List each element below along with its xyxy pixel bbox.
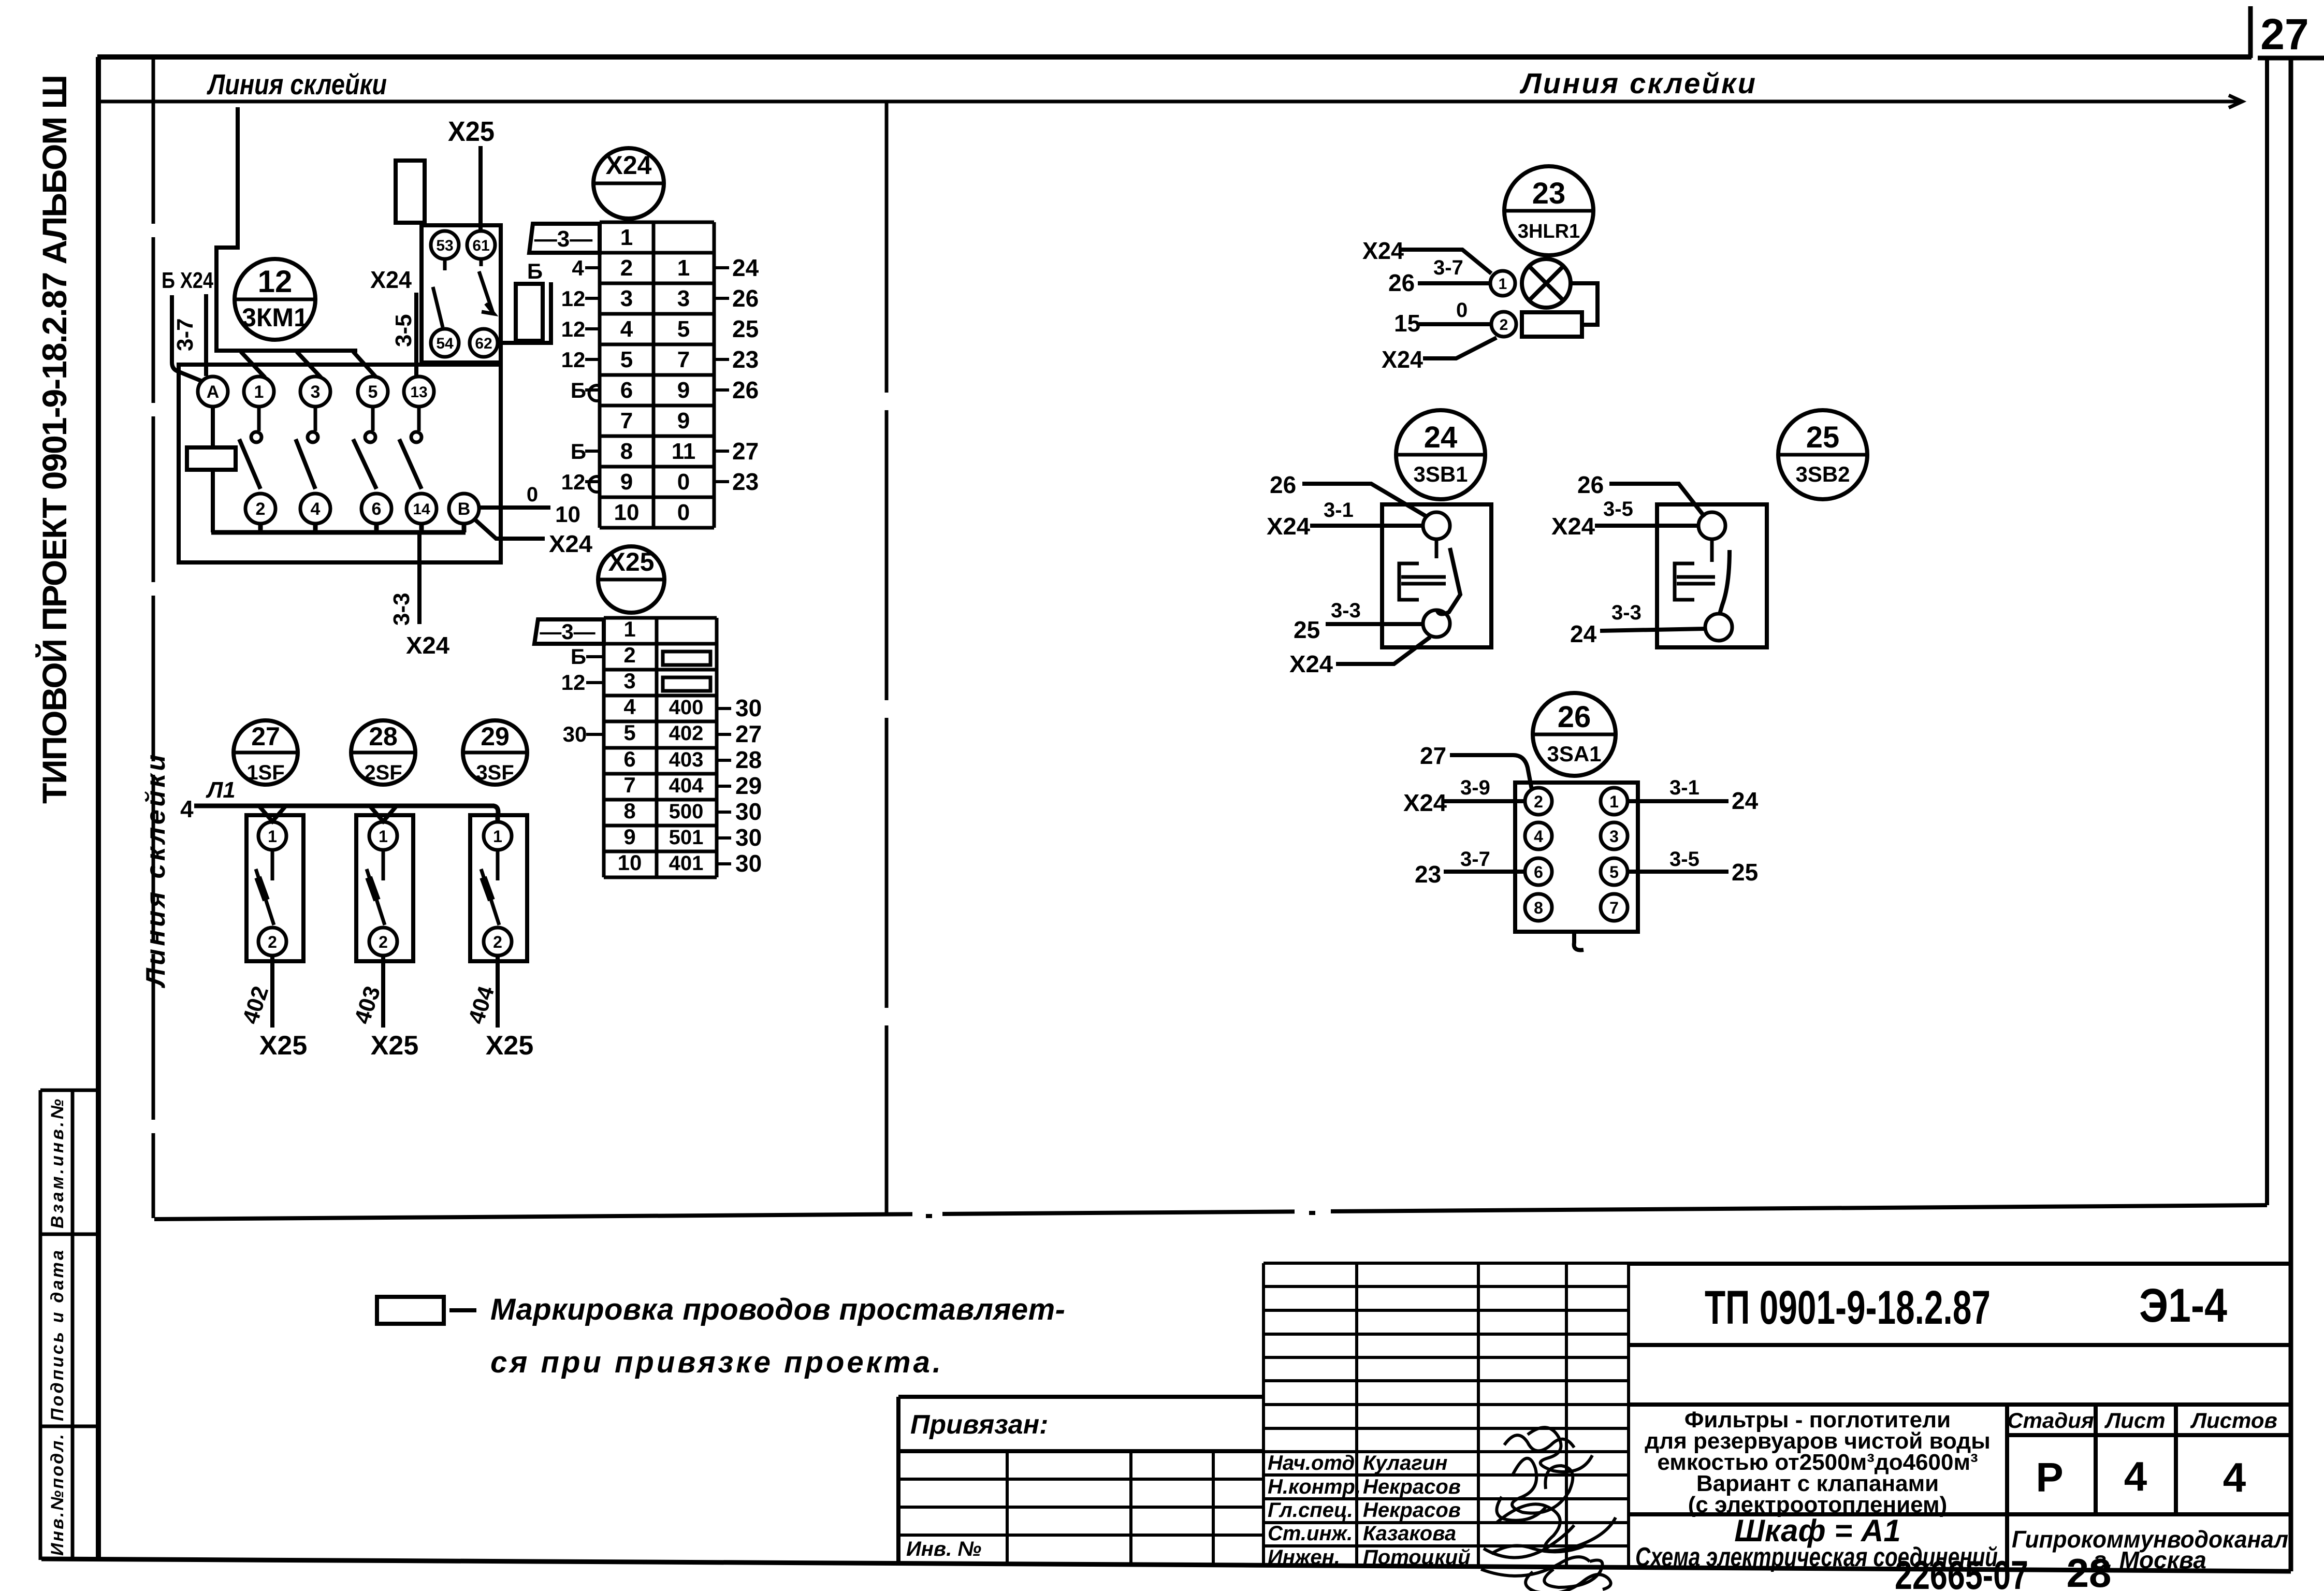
svg-text:29: 29: [735, 772, 762, 799]
aux contact 53-54 blade: [433, 259, 445, 327]
svg-text:23: 23: [1532, 177, 1566, 210]
switch pin 3: [1601, 822, 1628, 849]
svg-text:5: 5: [677, 316, 690, 342]
svg-text:ТП 0901-9-18.2.87: ТП 0901-9-18.2.87: [1705, 1281, 1991, 1334]
pin B: [449, 494, 479, 524]
svg-text:30: 30: [735, 695, 762, 721]
breaker 2SF box: [356, 815, 413, 961]
schematic bottom line: [154, 1205, 2267, 1219]
pole contact 720: [371, 407, 375, 431]
svg-text:Х25: Х25: [371, 1031, 419, 1061]
svg-text:12: 12: [561, 348, 586, 372]
svg-text:0: 0: [677, 469, 690, 495]
svg-text:3-7: 3-7: [1433, 256, 1463, 279]
pin 14: [406, 494, 437, 524]
pin 2: [245, 494, 275, 524]
wire mark rect 2: [516, 284, 543, 341]
breaker 3SF bottom wire: [496, 956, 500, 1028]
aux contact box: [422, 225, 501, 363]
svg-text:Б Х24: Б Х24: [162, 268, 213, 293]
svg-text:404: 404: [669, 774, 704, 797]
svg-text:Х24: Х24: [1362, 237, 1404, 264]
svg-text:7: 7: [623, 773, 635, 797]
svg-text:28: 28: [369, 722, 398, 751]
svg-text:3: 3: [1609, 827, 1619, 846]
svg-text:Стадия: Стадия: [2007, 1408, 2094, 1433]
lamp designator 23/3HLR1: [1504, 166, 1593, 255]
switch pin 1: [1601, 788, 1628, 815]
supply bus: [194, 806, 498, 822]
lamp resistor: [1522, 312, 1582, 337]
svg-text:Х25: Х25: [448, 116, 495, 147]
svg-text:7: 7: [620, 408, 633, 433]
svg-text:2: 2: [620, 255, 633, 281]
svg-text:27: 27: [1420, 742, 1446, 769]
attachment stamp table: [40, 1090, 98, 1560]
svg-text:13: 13: [410, 384, 427, 401]
svg-text:5: 5: [623, 720, 635, 745]
breaker 2SF designator: [351, 720, 415, 785]
pin 6: [361, 494, 391, 524]
wire mark rect near X25: [396, 161, 425, 223]
svg-text:3-5: 3-5: [391, 314, 416, 347]
pole contact 500: [257, 407, 261, 431]
svg-text:Б: Б: [527, 259, 543, 283]
svg-text:4: 4: [623, 695, 636, 719]
svg-text:Листов: Листов: [2190, 1408, 2277, 1433]
breaker 1SF box: [246, 815, 303, 961]
button 3SB1 top pin: [1423, 512, 1450, 539]
svg-text:3-1: 3-1: [1669, 776, 1700, 799]
breaker 1SF blade: [256, 850, 274, 925]
svg-text:—3—: —3—: [540, 619, 595, 644]
svg-text:3-3: 3-3: [389, 592, 414, 626]
svg-text:14: 14: [413, 501, 430, 518]
button designator 24/3SB1: [1396, 410, 1485, 499]
title block names grid: [1263, 1263, 1629, 1567]
svg-text:61: 61: [472, 237, 489, 254]
switch pin 8: [1525, 894, 1552, 921]
svg-text:Х24: Х24: [606, 151, 652, 180]
svg-text:Маркировка проводов проставл: Маркировка проводов проставляет-: [490, 1293, 1065, 1326]
svg-text:Х24: Х24: [1289, 650, 1333, 677]
svg-text:1: 1: [677, 255, 690, 281]
svg-text:4: 4: [620, 316, 633, 342]
svg-text:6: 6: [1534, 863, 1543, 881]
svg-text:2: 2: [256, 499, 266, 519]
svg-text:8: 8: [1534, 899, 1543, 917]
breaker 3SF pin 1: [484, 822, 512, 850]
svg-text:3-3: 3-3: [1611, 601, 1642, 624]
switch bottom hook: [1574, 932, 1584, 950]
aux contact 61-62 blade with arrow: [479, 259, 494, 314]
lamp pin 2: [1491, 312, 1516, 337]
svg-text:2: 2: [379, 933, 388, 951]
button 3SB1 mechanism: [1435, 539, 1439, 558]
svg-text:Р: Р: [2036, 1454, 2063, 1500]
svg-text:25: 25: [1732, 859, 1758, 886]
svg-text:4: 4: [2223, 1454, 2246, 1500]
svg-text:0: 0: [1456, 299, 1468, 322]
svg-text:3SB1: 3SB1: [1413, 462, 1468, 486]
svg-text:3-5: 3-5: [1669, 848, 1700, 871]
switch pin 4: [1525, 822, 1552, 849]
pole contact 609: [314, 407, 317, 431]
switch designator 26/3SA1: [1533, 693, 1616, 776]
svg-text:26: 26: [732, 377, 759, 403]
svg-text:Х24: Х24: [1267, 513, 1310, 540]
svg-text:2SF: 2SF: [364, 761, 402, 784]
X24 -3- box: [529, 224, 600, 253]
breaker 1SF designator: [234, 720, 298, 785]
svg-text:8: 8: [620, 439, 633, 464]
svg-text:9: 9: [623, 825, 635, 849]
svg-text:12: 12: [561, 470, 586, 494]
lamp pin 1: [1490, 271, 1515, 296]
svg-text:Потоцкий: Потоцкий: [1363, 1546, 1471, 1569]
breaker 3SF pin 2: [484, 928, 512, 956]
wire B right 0/10: [480, 505, 550, 510]
svg-text:3SB2: 3SB2: [1795, 462, 1850, 486]
svg-text:12: 12: [561, 670, 586, 695]
svg-text:Х25: Х25: [259, 1031, 308, 1061]
aux pin 61: [467, 231, 495, 259]
breaker 2SF bottom wire: [381, 956, 385, 1028]
svg-text:501: 501: [669, 826, 704, 849]
svg-text:Э1-4: Э1-4: [2139, 1279, 2227, 1332]
svg-text:24: 24: [732, 254, 759, 281]
svg-text:5: 5: [1609, 863, 1619, 881]
svg-text:3-1: 3-1: [1324, 499, 1354, 522]
svg-text:3-7: 3-7: [1460, 848, 1490, 871]
svg-text:28: 28: [2067, 1550, 2112, 1591]
svg-text:11: 11: [672, 439, 696, 464]
aux pin 54: [431, 329, 459, 357]
svg-text:9: 9: [677, 408, 690, 433]
switch pin 5: [1601, 858, 1628, 885]
breaker 1SF pin 1: [258, 822, 286, 850]
svg-text:4: 4: [311, 499, 321, 519]
svg-text:3-7: 3-7: [172, 318, 198, 351]
terminal block X24 designator: [593, 148, 664, 219]
svg-text:3-3: 3-3: [1331, 599, 1361, 622]
svg-text:26: 26: [1388, 269, 1415, 296]
svg-text:1SF: 1SF: [246, 761, 284, 784]
svg-text:Инжен.: Инжен.: [1268, 1546, 1340, 1569]
svg-text:8: 8: [623, 799, 635, 823]
pin 1: [244, 377, 274, 407]
wire X25 to pin 61: [478, 146, 483, 231]
svg-text:Нач.отд: Нач.отд: [1268, 1452, 1355, 1474]
pin 5: [358, 377, 388, 407]
svg-text:3: 3: [620, 286, 633, 311]
svg-text:Б: Б: [571, 439, 586, 464]
svg-text:1: 1: [620, 225, 633, 250]
switch pin 7: [1601, 894, 1628, 921]
switch pin 6: [1525, 858, 1552, 885]
svg-text:1: 1: [1609, 792, 1619, 811]
svg-text:26: 26: [1577, 471, 1604, 498]
switch pin 2: [1525, 788, 1552, 815]
svg-text:Х24: Х24: [370, 266, 412, 293]
svg-text:30: 30: [735, 824, 762, 851]
svg-text:Кулагин: Кулагин: [1363, 1452, 1447, 1474]
breaker 1SF bottom wire: [270, 956, 274, 1028]
button 3SB2 mechanism: [1710, 539, 1714, 562]
svg-text:30: 30: [735, 798, 762, 825]
wire 14 down 3-3 X24: [417, 532, 422, 624]
svg-text:—3—: —3—: [534, 226, 592, 252]
legend marking box: [377, 1297, 444, 1324]
svg-text:Лист: Лист: [2104, 1408, 2165, 1433]
svg-text:Б: Б: [571, 378, 586, 402]
svg-text:10: 10: [614, 500, 640, 525]
svg-text:1: 1: [268, 827, 277, 846]
button designator 25/3SB2: [1778, 410, 1867, 499]
svg-text:Некрасов: Некрасов: [1363, 1499, 1461, 1522]
svg-text:В: В: [458, 499, 471, 519]
svg-text:53: 53: [436, 237, 453, 254]
svg-text:3: 3: [623, 669, 635, 693]
svg-text:4: 4: [572, 256, 584, 280]
svg-text:10: 10: [555, 502, 580, 527]
svg-text:Некрасов: Некрасов: [1363, 1476, 1461, 1498]
pin 3: [300, 377, 330, 407]
svg-text:22665-07: 22665-07: [1895, 1552, 2028, 1591]
button 3SB1 box: [1382, 504, 1491, 647]
svg-text:Х25: Х25: [608, 547, 655, 576]
switch 3SA1 box: [1515, 783, 1638, 932]
wire 3-7 to pin A: [172, 295, 202, 381]
svg-text:Х24: Х24: [1382, 346, 1423, 373]
button 3SB2 box: [1657, 504, 1767, 647]
svg-text:62: 62: [475, 335, 492, 352]
svg-text:Линия склейки: Линия склейки: [207, 68, 387, 100]
svg-text:Х24: Х24: [549, 530, 592, 557]
svg-text:1: 1: [493, 827, 502, 846]
breaker 3SF designator: [463, 720, 527, 785]
svg-text:12: 12: [561, 286, 586, 311]
svg-text:Гл.спец.: Гл.спец.: [1268, 1499, 1353, 1522]
svg-text:27: 27: [732, 438, 759, 465]
svg-text:Л1: Л1: [206, 777, 236, 803]
svg-text:Ст.инж.: Ст.инж.: [1268, 1522, 1353, 1545]
svg-text:4: 4: [2124, 1453, 2147, 1499]
svg-text:3HLR1: 3HLR1: [1518, 221, 1580, 242]
svg-text:403: 403: [669, 748, 704, 771]
svg-text:23: 23: [732, 468, 759, 495]
svg-text:3-5: 3-5: [1603, 498, 1633, 520]
svg-text:29: 29: [481, 722, 510, 751]
svg-text:3SA1: 3SA1: [1547, 742, 1601, 766]
svg-text:3КМ1: 3КМ1: [242, 303, 308, 332]
svg-text:2: 2: [623, 643, 635, 667]
button 3SB2 top pin: [1698, 512, 1725, 539]
svg-text:Х24: Х24: [1551, 513, 1595, 540]
svg-text:Привязан:: Привязан:: [910, 1410, 1048, 1440]
svg-text:12: 12: [561, 317, 586, 341]
aux pin 53: [431, 231, 459, 259]
wire 62 to B bracket: [498, 282, 551, 343]
svg-text:Н.контр.: Н.контр.: [1268, 1476, 1361, 1498]
svg-text:Х24: Х24: [1403, 789, 1447, 816]
svg-text:4: 4: [180, 795, 194, 822]
svg-text:3SF: 3SF: [476, 761, 514, 784]
lamp symbol: [1522, 259, 1571, 308]
legend dash: [449, 1308, 476, 1312]
svg-text:Казакова: Казакова: [1363, 1522, 1456, 1545]
svg-text:10: 10: [618, 850, 642, 875]
svg-text:2: 2: [268, 933, 277, 951]
X25 table grid: [604, 618, 717, 877]
svg-text:26: 26: [1558, 700, 1591, 734]
svg-text:24: 24: [1570, 620, 1597, 647]
svg-text:А: А: [207, 382, 220, 402]
svg-text:54: 54: [436, 335, 454, 352]
pin 13: [404, 377, 434, 407]
svg-text:6: 6: [620, 378, 633, 403]
breaker 2SF pin 2: [369, 928, 397, 956]
svg-text:400: 400: [669, 696, 704, 719]
aux pin 62: [470, 329, 498, 357]
X25 marking boxes rows 2-3: [663, 652, 710, 665]
svg-text:26: 26: [732, 285, 759, 312]
svg-text:24: 24: [1732, 787, 1759, 814]
bus dips into breakers: [259, 806, 286, 821]
svg-text:401: 401: [669, 852, 704, 875]
svg-text:500: 500: [669, 800, 704, 823]
coil rect: [187, 447, 236, 470]
svg-text:Взам.инв.№: Взам.инв.№: [48, 1099, 67, 1228]
svg-text:1: 1: [1499, 276, 1507, 293]
inner right border: [2265, 60, 2269, 1205]
svg-text:1: 1: [254, 382, 264, 402]
svg-text:9: 9: [620, 469, 633, 495]
svg-text:27: 27: [251, 722, 280, 751]
wire X24/3-5 to pin 13: [414, 293, 418, 376]
svg-text:4: 4: [1534, 827, 1543, 846]
svg-text:12: 12: [258, 264, 293, 299]
svg-text:23: 23: [732, 346, 759, 373]
pole contact 809: [417, 407, 421, 431]
privyazan table: [898, 1397, 1263, 1562]
svg-text:3-9: 3-9: [1460, 776, 1490, 799]
breaker 3SF blade: [481, 850, 499, 925]
svg-text:Б: Б: [571, 644, 586, 669]
pin 4: [300, 494, 330, 524]
svg-text:2: 2: [1534, 792, 1543, 811]
svg-text:0: 0: [677, 500, 690, 525]
svg-text:28: 28: [735, 746, 762, 773]
X24 table grid: [600, 222, 714, 528]
svg-text:6: 6: [372, 499, 382, 519]
svg-text:402: 402: [669, 722, 704, 745]
center divider line: [885, 103, 889, 1216]
svg-text:Х24: Х24: [406, 632, 449, 659]
breaker 2SF blade: [367, 850, 385, 925]
contactor main box: [179, 365, 501, 562]
contactor K 3KM1 outline wires: [216, 107, 357, 351]
svg-text:30: 30: [735, 850, 762, 877]
button 3SB2 bottom pin: [1705, 614, 1732, 641]
X25 -3- box: [534, 619, 604, 644]
svg-text:0: 0: [527, 483, 538, 506]
svg-text:2: 2: [1500, 316, 1508, 334]
breaker 1SF pin 2: [258, 928, 286, 956]
coil connections: [211, 407, 215, 532]
svg-text:15: 15: [1394, 310, 1420, 337]
svg-text:7: 7: [1609, 899, 1619, 917]
svg-text:Х25: Х25: [486, 1031, 534, 1061]
svg-text:6: 6: [623, 747, 635, 771]
button 3SB1 bottom pin: [1423, 610, 1450, 637]
svg-text:3: 3: [311, 382, 321, 402]
svg-text:Инв. №: Инв. №: [906, 1538, 981, 1560]
svg-text:2: 2: [493, 933, 502, 951]
glue band second line with arrow: [98, 100, 2242, 104]
svg-text:5: 5: [620, 347, 633, 372]
title block right section: [1629, 1264, 2291, 1569]
breaker 2SF pin 1: [369, 822, 397, 850]
svg-text:1: 1: [623, 617, 635, 641]
terminal block X25 designator: [598, 546, 664, 613]
wire B to X24: [475, 519, 545, 539]
svg-text:25: 25: [1806, 421, 1840, 454]
bottom bus: [211, 524, 466, 532]
wire X24 to pin A: [204, 294, 208, 376]
lamp right link: [1571, 283, 1597, 325]
breaker 3SF box: [470, 815, 527, 961]
svg-text:9: 9: [677, 378, 690, 403]
svg-text:7: 7: [677, 347, 690, 372]
contactor designator 12/3KM1: [235, 259, 315, 340]
svg-text:25: 25: [1294, 616, 1320, 643]
svg-text:1: 1: [379, 827, 388, 846]
svg-text:ТИПОВОЙ ПРОЕКТ 0901-9-18.2.87: ТИПОВОЙ ПРОЕКТ 0901-9-18.2.87 АЛЬБОМ Ш: [35, 75, 74, 804]
svg-text:27: 27: [735, 720, 762, 747]
signatures: [1481, 1427, 1616, 1591]
svg-text:24: 24: [1424, 421, 1458, 454]
svg-text:5: 5: [368, 382, 378, 402]
svg-text:25: 25: [732, 315, 759, 342]
svg-text:23: 23: [1415, 861, 1441, 888]
svg-text:30: 30: [563, 722, 587, 746]
svg-text:27: 27: [2260, 10, 2308, 59]
svg-text:26: 26: [1270, 471, 1296, 498]
svg-text:3: 3: [677, 286, 690, 311]
fold line left: [152, 58, 155, 1218]
pin A: [198, 377, 228, 407]
shelf diagonals to pins 1 3 5: [241, 352, 376, 378]
